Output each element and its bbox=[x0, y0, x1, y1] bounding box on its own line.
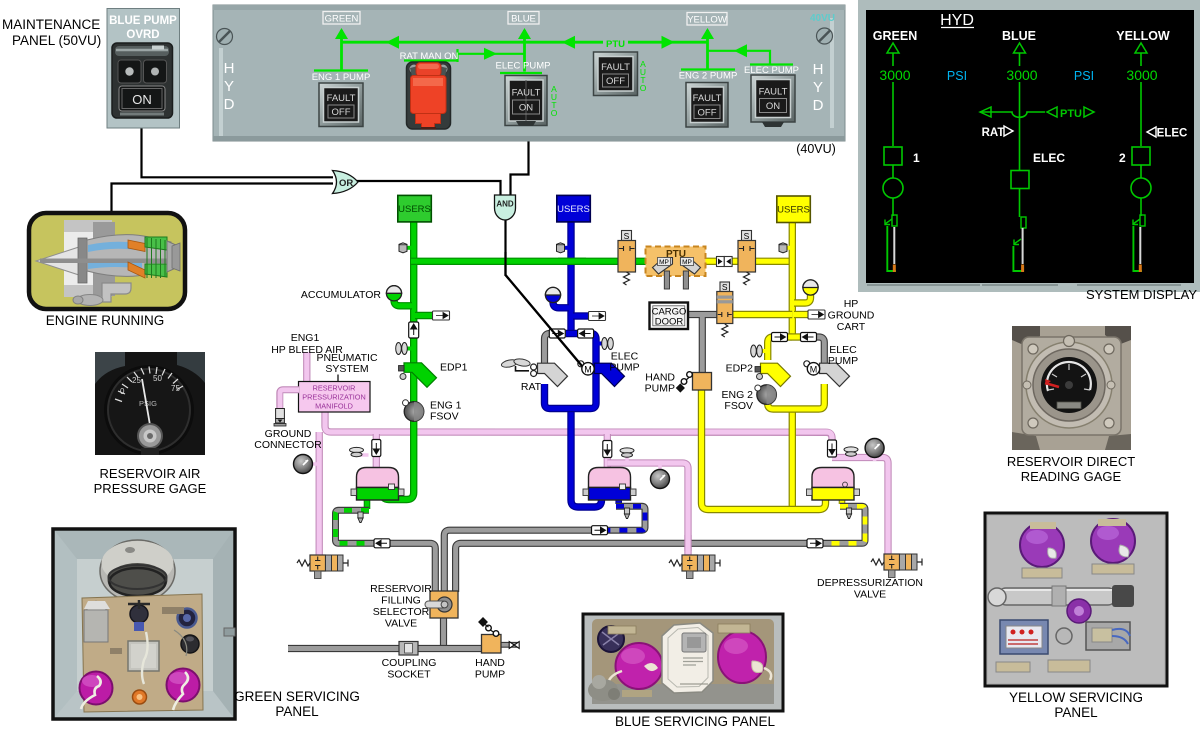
blue reservoir bleed fitting bbox=[624, 508, 629, 519]
pink over gray crossing bbox=[684, 535, 691, 551]
green reservoir bbox=[351, 468, 404, 501]
ENG 2 PUMP pushbutton bbox=[686, 83, 728, 128]
RAT propeller bbox=[501, 358, 531, 371]
svg-text:YELLOW SERVICING: YELLOW SERVICING bbox=[1009, 690, 1143, 705]
PTU pushbutton bbox=[594, 52, 638, 96]
yellow accumulator bbox=[794, 280, 818, 303]
blue main supply line upper bbox=[567, 220, 574, 331]
svg-text:DEPRESSURIZATION: DEPRESSURIZATION bbox=[817, 577, 923, 589]
svg-text:USERS: USERS bbox=[557, 204, 590, 215]
air branch to green depress valve bbox=[316, 432, 323, 556]
green col line bbox=[892, 53, 894, 216]
PTU crossline bbox=[980, 107, 1094, 120]
rat man on green link line bbox=[404, 48, 525, 62]
svg-text:50: 50 bbox=[153, 374, 162, 383]
hand pump servicing label bbox=[475, 657, 505, 681]
reservoir direct reading gage label bbox=[1007, 454, 1135, 484]
BLUE label box bbox=[508, 12, 539, 25]
svg-text:RESERVOIR AIR: RESERVOIR AIR bbox=[100, 466, 201, 481]
hand pump (servicing) bbox=[478, 617, 501, 653]
wire AND to motor overlay bbox=[506, 275, 583, 366]
svg-text:PSI: PSI bbox=[1074, 69, 1094, 83]
YELLOW label box bbox=[687, 13, 727, 26]
yellow filling check valve bbox=[807, 539, 823, 548]
green pump circle bbox=[883, 178, 903, 198]
green vertical to GREEN box bbox=[314, 28, 368, 71]
air branch blue reservoir bbox=[604, 434, 611, 470]
blue accumulator bbox=[545, 287, 569, 307]
PTU solenoid valve green side bbox=[618, 231, 636, 286]
svg-text:FSOV: FSOV bbox=[430, 411, 459, 423]
svg-text:SOCKET: SOCKET bbox=[387, 669, 431, 681]
svg-text:OFF: OFF bbox=[332, 107, 351, 118]
svg-text:AND: AND bbox=[496, 200, 514, 209]
svg-text:RESERVOIR DIRECT: RESERVOIR DIRECT bbox=[1007, 454, 1135, 469]
arrow to yellow bbox=[662, 36, 675, 49]
svg-text:VALVE: VALVE bbox=[385, 618, 417, 630]
svg-text:PRESSURE GAGE: PRESSURE GAGE bbox=[94, 481, 207, 496]
40VU overhead panel body bbox=[213, 5, 845, 141]
svg-text:PANEL: PANEL bbox=[1054, 705, 1098, 720]
AUTO label ptu bbox=[640, 59, 647, 93]
SYSTEM DISPLAY label bbox=[1086, 287, 1197, 302]
svg-text:BLUE: BLUE bbox=[511, 14, 536, 25]
wire: maintenance panel to OR gate input bbox=[142, 128, 334, 177]
svg-text:D: D bbox=[224, 96, 235, 113]
svg-text:ELEC PUMP: ELEC PUMP bbox=[496, 61, 551, 72]
svg-text:PANEL (50VU): PANEL (50VU) bbox=[12, 33, 101, 48]
ENG 2 FSOV valve bbox=[755, 385, 777, 405]
ENG 1 PUMP pushbutton bbox=[319, 83, 363, 127]
yellow loop elec feed gray bbox=[815, 337, 824, 363]
AND gate bbox=[495, 195, 516, 220]
yellow return line to selector bbox=[456, 543, 808, 592]
wire: AND output to blue elec pump motor bbox=[506, 219, 583, 366]
hand pump bleed valve bbox=[509, 642, 519, 649]
green reservoir bleed fitting bbox=[358, 512, 363, 523]
elec pump blue label bbox=[609, 351, 639, 374]
svg-text:DOOR: DOOR bbox=[655, 317, 684, 328]
svg-text:S: S bbox=[722, 282, 728, 292]
selector outlet line bbox=[440, 617, 447, 649]
svg-text:H: H bbox=[224, 60, 235, 77]
accumulator label bbox=[301, 289, 382, 301]
yellow reservoir outlet stub bbox=[839, 498, 846, 504]
engine running box bbox=[29, 213, 185, 309]
svg-text:USERS: USERS bbox=[398, 204, 431, 215]
HYD page title bbox=[940, 12, 974, 29]
svg-text:RESERVOIR: RESERVOIR bbox=[370, 583, 432, 595]
screw right bbox=[817, 28, 833, 44]
svg-text:O: O bbox=[551, 108, 558, 118]
yellow elec pump green link bbox=[708, 44, 794, 64]
YELLOW column label bbox=[1116, 29, 1170, 43]
blue users box bbox=[557, 195, 591, 222]
green depressurization valve bbox=[297, 555, 348, 579]
GREEN column label bbox=[873, 29, 917, 43]
maintenance panel label bbox=[2, 17, 101, 48]
svg-text:COUPLING: COUPLING bbox=[382, 657, 437, 669]
yellow filling return striped bbox=[823, 506, 865, 543]
svg-text:ELEC: ELEC bbox=[1033, 151, 1065, 165]
ELEC yellow indicator bbox=[1147, 127, 1187, 140]
svg-text:M: M bbox=[584, 365, 592, 375]
svg-text:GROUND: GROUND bbox=[828, 310, 875, 322]
yellow cargo hp line bbox=[733, 311, 792, 318]
svg-text:0: 0 bbox=[120, 387, 125, 396]
blue return line to selector bbox=[444, 530, 592, 592]
GREEN label box bbox=[323, 12, 360, 25]
cargo door box bbox=[650, 303, 689, 330]
svg-text:RAT MAN ON: RAT MAN ON bbox=[400, 51, 459, 62]
green priority valve branch bbox=[415, 311, 450, 320]
coupling socket bbox=[399, 642, 418, 656]
ELEC PUMP yellow label bbox=[744, 65, 799, 76]
yellow air check valve bbox=[828, 440, 837, 457]
ground connector bbox=[274, 409, 286, 427]
svg-text:RAT: RAT bbox=[521, 381, 542, 393]
wire: OR output to AND gate bbox=[356, 181, 501, 195]
pressure values bbox=[879, 67, 1157, 83]
blue loop RAT feed gray bbox=[545, 334, 561, 367]
ENGINE RUNNING label bbox=[46, 313, 165, 328]
yellow reservoir bleed fitting bbox=[846, 508, 851, 519]
green filling return line striped bbox=[336, 510, 375, 543]
green filter bbox=[396, 343, 412, 355]
ground connector branch bbox=[280, 390, 299, 409]
ELEC PUMP blue label bbox=[496, 61, 551, 72]
PTU solenoid valve yellow side bbox=[738, 231, 756, 286]
yellow fire valve square bbox=[1119, 147, 1150, 165]
svg-text:FAULT: FAULT bbox=[327, 93, 356, 104]
svg-text:Y: Y bbox=[813, 79, 823, 96]
svg-text:MP: MP bbox=[659, 259, 669, 266]
yellow col arrow bbox=[1135, 43, 1147, 53]
yellow pressure line top bbox=[700, 258, 792, 265]
svg-text:FAULT: FAULT bbox=[601, 62, 630, 73]
yellow bleed tap bbox=[779, 243, 791, 253]
svg-text:OVRD: OVRD bbox=[126, 29, 159, 41]
svg-text:OR: OR bbox=[339, 178, 353, 189]
arrow to green bbox=[386, 36, 399, 49]
system display bezel bbox=[858, 0, 1200, 292]
yellow reservoir bbox=[807, 468, 860, 501]
svg-text:VALVE: VALVE bbox=[854, 589, 886, 601]
svg-text:O: O bbox=[640, 83, 647, 93]
blue filling check valve bbox=[592, 526, 608, 535]
yellow loop check valve left bbox=[772, 333, 788, 342]
green return line to selector bbox=[389, 543, 435, 592]
svg-text:OFF: OFF bbox=[698, 108, 717, 119]
green check valve bbox=[409, 322, 419, 338]
reservoir air pressure gage photo bbox=[95, 352, 205, 455]
pneumatic supply line ENG1 bbox=[303, 352, 310, 382]
svg-text:MANIFOLD: MANIFOLD bbox=[315, 402, 353, 411]
svg-text:ON: ON bbox=[519, 103, 533, 114]
main air line from manifold bbox=[325, 411, 832, 440]
svg-text:USERS: USERS bbox=[777, 205, 810, 216]
svg-text:BLUE: BLUE bbox=[1002, 29, 1036, 43]
EDP1 pump bbox=[399, 363, 437, 388]
coupling socket label bbox=[382, 657, 437, 681]
(40VU) label below panel bbox=[796, 142, 836, 156]
ELEC PUMP blue pushbutton bbox=[505, 76, 547, 127]
yellow main supply upper bbox=[789, 220, 796, 334]
svg-text:3000: 3000 bbox=[879, 67, 910, 83]
green bleed tap bbox=[399, 243, 412, 253]
svg-text:OFF: OFF bbox=[606, 76, 625, 87]
svg-text:ENG1: ENG1 bbox=[291, 332, 320, 344]
yellow servicing panel label bbox=[1009, 690, 1143, 720]
screw left bbox=[217, 29, 233, 45]
svg-text:FAULT: FAULT bbox=[759, 87, 788, 98]
blue reservoir outlet stub bbox=[615, 498, 622, 504]
svg-text:(40VU): (40VU) bbox=[796, 142, 836, 156]
svg-text:HAND: HAND bbox=[475, 657, 505, 669]
blue air check valve bbox=[603, 441, 612, 458]
cargo door solenoid valve bbox=[717, 282, 733, 337]
svg-text:ACCUMULATOR: ACCUMULATOR bbox=[301, 289, 382, 301]
blue pump loop bbox=[545, 334, 597, 409]
blue loop check valve right bbox=[578, 329, 594, 338]
green line over blue crossing bbox=[558, 258, 586, 265]
svg-text:YELLOW: YELLOW bbox=[687, 15, 727, 26]
hand pump upper bbox=[676, 372, 712, 393]
svg-text:H: H bbox=[813, 61, 824, 78]
svg-text:MAINTENANCE: MAINTENANCE bbox=[2, 17, 100, 32]
yellow filter bbox=[751, 345, 767, 357]
ENG 1 FSOV valve bbox=[403, 400, 424, 422]
HYD left vertical label bbox=[224, 60, 235, 113]
green col arrow bbox=[887, 43, 899, 53]
svg-text:BLUE PUMP: BLUE PUMP bbox=[109, 15, 177, 27]
AUTO label blue elec pump bbox=[551, 84, 558, 118]
green servicing panel photo bbox=[53, 529, 235, 719]
green users box bbox=[398, 195, 432, 222]
yellow pump circle bbox=[1131, 178, 1151, 198]
RAT pump bbox=[531, 363, 568, 386]
svg-text:ENGINE RUNNING: ENGINE RUNNING bbox=[46, 313, 165, 328]
blue bleed tap bbox=[557, 243, 570, 253]
svg-text:S: S bbox=[744, 231, 750, 241]
svg-text:25: 25 bbox=[132, 376, 141, 385]
green vent bbox=[350, 447, 369, 456]
blue filter bbox=[596, 338, 613, 350]
blue pump ovrd switch bbox=[112, 43, 173, 118]
svg-text:ON: ON bbox=[132, 92, 152, 107]
svg-text:D: D bbox=[813, 97, 824, 114]
svg-text:PTU: PTU bbox=[1060, 108, 1082, 120]
svg-text:CART: CART bbox=[837, 321, 866, 333]
blue reservoir bbox=[583, 468, 636, 501]
hand pump outlet line bbox=[501, 642, 519, 648]
PTU block bbox=[646, 247, 706, 290]
blue reservoir indicator bbox=[1013, 217, 1026, 272]
green reservoir indicator bbox=[885, 215, 897, 272]
svg-text:MP: MP bbox=[682, 259, 692, 266]
svg-text:GREEN: GREEN bbox=[873, 29, 917, 43]
svg-text:PRESSURIZATION: PRESSURIZATION bbox=[302, 393, 366, 402]
green filling check valve bbox=[374, 539, 390, 548]
svg-text:FILLING: FILLING bbox=[381, 595, 421, 607]
svg-text:FAULT: FAULT bbox=[512, 88, 541, 99]
yellow hp ground cart branch bbox=[794, 310, 825, 319]
svg-text:PUMP: PUMP bbox=[828, 355, 858, 367]
svg-text:PUMP: PUMP bbox=[475, 669, 505, 681]
svg-text:HP: HP bbox=[844, 298, 859, 310]
yellow servicing panel photo bbox=[985, 513, 1167, 686]
svg-text:ENG 2 PUMP: ENG 2 PUMP bbox=[679, 71, 738, 82]
svg-text:YELLOW: YELLOW bbox=[1116, 29, 1170, 43]
green vertical to BLUE box bbox=[500, 28, 542, 73]
green air check valve bbox=[372, 440, 381, 457]
ELEC PUMP yellow pushbutton bbox=[751, 75, 795, 127]
svg-text:GREEN SERVICING: GREEN SERVICING bbox=[234, 689, 360, 704]
blue servicing panel photo bbox=[583, 614, 783, 711]
blue col line bbox=[1019, 53, 1021, 217]
green reservoir outlet stub bbox=[364, 498, 371, 509]
svg-text:FAULT: FAULT bbox=[693, 93, 722, 104]
yellow loop check valve right bbox=[801, 333, 817, 342]
svg-text:PANEL: PANEL bbox=[275, 704, 319, 719]
blue filling return striped bbox=[608, 506, 645, 530]
svg-text:ENG 1 PUMP: ENG 1 PUMP bbox=[312, 72, 371, 83]
svg-text:PSI: PSI bbox=[947, 69, 967, 83]
ENG1 HP bleed air label bbox=[271, 332, 343, 356]
svg-text:RESERVOIR: RESERVOIR bbox=[313, 384, 356, 393]
yellow elec pump motor bbox=[804, 361, 850, 387]
svg-text:HYD: HYD bbox=[940, 12, 974, 29]
svg-text:75: 75 bbox=[171, 384, 180, 393]
EDP2 pump bbox=[755, 363, 791, 386]
svg-text:SYSTEM DISPLAY: SYSTEM DISPLAY bbox=[1086, 287, 1197, 302]
svg-text:PSIG: PSIG bbox=[139, 399, 157, 408]
EDP2 label bbox=[726, 363, 754, 375]
svg-text:EDP2: EDP2 bbox=[726, 363, 754, 375]
reservoir air pressure gage label bbox=[94, 466, 207, 496]
blue air gauge bbox=[651, 464, 670, 489]
blue priority valve branch bbox=[573, 312, 606, 321]
display bottom bezel line bbox=[867, 284, 1181, 286]
reservoir filling selector valve bbox=[425, 591, 458, 618]
RAT indicator bbox=[982, 126, 1013, 139]
green fire valve square bbox=[884, 147, 920, 165]
blue elec square bbox=[1011, 151, 1065, 189]
air link yellow to depress valve bbox=[832, 458, 888, 556]
svg-text:RAT: RAT bbox=[982, 127, 1005, 139]
svg-text:EDP1: EDP1 bbox=[440, 362, 468, 374]
green servicing panel label bbox=[234, 689, 360, 719]
maintenance panel 50VU bbox=[107, 9, 180, 129]
yellow air gauge bbox=[865, 439, 884, 462]
svg-text:BLUE SERVICING PANEL: BLUE SERVICING PANEL bbox=[615, 714, 776, 729]
ground connector label bbox=[254, 428, 322, 451]
svg-text:Y: Y bbox=[224, 78, 234, 95]
svg-text:PUMP: PUMP bbox=[609, 362, 639, 374]
green air gauge bbox=[294, 455, 319, 474]
blue depressurization valve bbox=[669, 555, 720, 579]
green accumulator bbox=[386, 286, 412, 306]
svg-text:CONNECTOR: CONNECTOR bbox=[254, 439, 322, 451]
air link blue to depress valve bbox=[607, 463, 688, 556]
OR gate bbox=[333, 171, 359, 194]
HYD right vertical label bbox=[813, 61, 824, 114]
svg-text:2: 2 bbox=[1119, 151, 1126, 165]
reservoir filling selector valve label bbox=[370, 583, 432, 630]
yellow reservoir indicator bbox=[1133, 215, 1145, 272]
wire: engine to OR gate input bbox=[112, 184, 334, 215]
blue vent bbox=[620, 448, 634, 461]
ENG 2 FSOV label bbox=[721, 389, 753, 412]
BLUE column label bbox=[1002, 29, 1036, 43]
yellow main below loop bbox=[789, 409, 796, 510]
svg-text:3000: 3000 bbox=[1006, 67, 1037, 83]
green main supply line bbox=[382, 220, 414, 500]
svg-text:3000: 3000 bbox=[1126, 67, 1157, 83]
hp ground cart label bbox=[828, 298, 875, 333]
svg-text:FSOV: FSOV bbox=[724, 400, 753, 412]
ENG 1 FSOV label bbox=[430, 400, 462, 423]
40VU teal placard bbox=[810, 13, 835, 24]
svg-text:ON: ON bbox=[766, 101, 780, 112]
air branch green reservoir bbox=[373, 434, 380, 470]
ENG 2 PUMP label bbox=[679, 71, 738, 82]
svg-text:READING GAGE: READING GAGE bbox=[1021, 469, 1122, 484]
wire: 40VU blue elec pump button to AND gate bbox=[511, 140, 529, 195]
ENG 1 PUMP label bbox=[312, 72, 371, 83]
reservoir direct reading gage photo bbox=[1012, 326, 1131, 450]
wire AND vertical over green bbox=[504, 252, 506, 276]
green vertical to YELLOW box bbox=[681, 28, 735, 70]
yellow depressurization valve bbox=[871, 554, 922, 578]
blue servicing panel label bbox=[615, 714, 776, 729]
green pressure line to PTU bbox=[411, 258, 652, 265]
svg-text:PUMP: PUMP bbox=[645, 383, 675, 395]
elec pump yellow label bbox=[828, 344, 858, 367]
yellow pump loop bbox=[768, 337, 825, 409]
yellow col line bbox=[1140, 53, 1142, 216]
double check valve bbox=[717, 257, 733, 267]
svg-text:GREEN: GREEN bbox=[325, 14, 359, 25]
svg-text:M: M bbox=[810, 365, 818, 375]
EDP1 label bbox=[440, 362, 468, 374]
depressurization valve label bbox=[817, 577, 923, 601]
blue elec pump motor bbox=[578, 361, 625, 387]
arrow to blue bbox=[562, 36, 575, 49]
PTU label on line bbox=[606, 39, 625, 50]
svg-text:40VU: 40VU bbox=[810, 13, 835, 24]
blue col arrow bbox=[1014, 43, 1026, 53]
svg-text:1: 1 bbox=[913, 151, 920, 165]
coupling socket line bbox=[288, 645, 482, 652]
reservoir pressurization manifold box bbox=[299, 382, 371, 413]
pneumatic system label bbox=[316, 352, 377, 381]
svg-text:ELEC: ELEC bbox=[1157, 128, 1188, 140]
yellow hand pump suction line bbox=[702, 390, 826, 510]
cargo door line bbox=[688, 315, 717, 374]
svg-text:S: S bbox=[624, 231, 630, 241]
svg-text:PTU: PTU bbox=[606, 39, 625, 50]
blue main supply line lower bbox=[571, 410, 602, 507]
yellow users box bbox=[777, 196, 811, 223]
RAT MAN ON guarded switch bbox=[407, 62, 451, 130]
svg-text:SELECTOR: SELECTOR bbox=[373, 606, 430, 618]
svg-text:SYSTEM: SYSTEM bbox=[325, 363, 368, 375]
green line A main horizontal bbox=[342, 41, 708, 44]
blue loop check valve left bbox=[549, 329, 565, 338]
yellow vent bbox=[844, 447, 858, 460]
RAT MAN ON label bbox=[400, 51, 459, 62]
